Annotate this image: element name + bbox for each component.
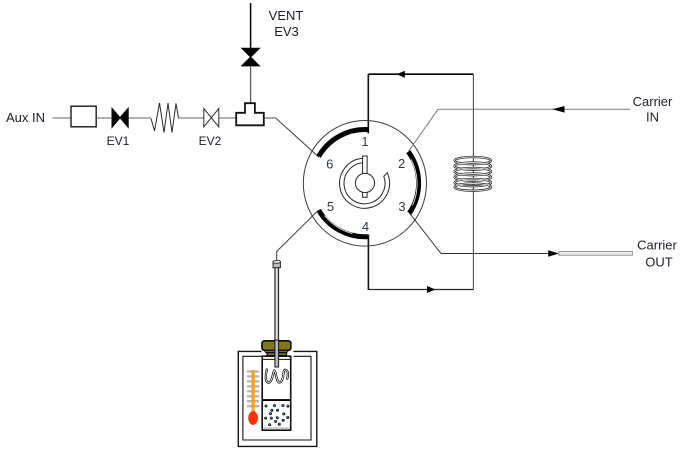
vial body	[262, 356, 291, 430]
valve EV1	[112, 108, 128, 127]
restrictor zigzag	[151, 103, 179, 133]
wire port 1	[367, 74, 369, 133]
wire restrictor to EV2	[179, 117, 204, 119]
svg-text:Aux IN: Aux IN	[6, 110, 45, 125]
wire tee to port 6	[264, 118, 319, 157]
vapor squiggle W	[266, 370, 288, 383]
thermometer bulb	[248, 411, 258, 425]
arrow right on Carrier OUT	[548, 250, 559, 256]
valve body circle	[303, 121, 426, 247]
wire EV2 to tee	[219, 117, 236, 119]
vial bottom shading	[263, 427, 290, 429]
thermometer tick marks	[247, 370, 259, 407]
sample loop rect bottom wire	[368, 289, 473, 291]
svg-text:Carrier: Carrier	[637, 238, 677, 253]
wire port 5 to needle	[277, 210, 319, 261]
sample loop rect right wire	[472, 74, 474, 289]
svg-text:5: 5	[327, 199, 334, 214]
tee fitting	[236, 103, 264, 125]
arrow right on bottom wire	[427, 286, 435, 293]
liquid separator line	[262, 399, 291, 401]
needle through cap	[275, 340, 279, 367]
wire vent line top	[250, 3, 252, 48]
oven box inner wall	[243, 356, 311, 440]
needle tube	[275, 268, 279, 367]
svg-text:IN: IN	[646, 110, 659, 125]
sample loop coil	[455, 157, 491, 191]
svg-text:EV3: EV3	[274, 24, 299, 39]
wire EV1 to restrictor	[129, 117, 151, 119]
rotor stem	[363, 156, 368, 197]
svg-text:Carrier: Carrier	[633, 94, 673, 109]
oven box outer wall	[238, 351, 316, 446]
sample loop rect top wire with arrow	[368, 73, 473, 75]
rotor channel arc ports 6-1	[319, 129, 369, 156]
arrow left on Carrier IN	[552, 106, 564, 113]
svg-text:EV2: EV2	[199, 134, 222, 148]
wire Aux IN to filter box	[53, 117, 72, 119]
svg-text:6: 6	[326, 157, 333, 172]
wire box to EV1	[96, 117, 111, 119]
rotor center circle	[355, 173, 374, 192]
svg-text:4: 4	[362, 219, 369, 234]
wire port 2 to Carrier IN	[408, 109, 630, 151]
wire port 3 to Carrier OUT	[409, 213, 549, 254]
liquid bubbles dots	[264, 404, 289, 426]
Carrier OUT tube	[559, 252, 633, 256]
svg-text:1: 1	[361, 134, 368, 149]
wire port 4	[367, 235, 369, 291]
wire EV3 to tee	[250, 66, 252, 103]
arrow left on top wire	[397, 71, 405, 78]
arc highlight streaks	[324, 134, 353, 163]
thermometer stem	[252, 370, 255, 414]
svg-text:EV1: EV1	[107, 134, 130, 148]
svg-text:3: 3	[398, 199, 405, 214]
svg-text:VENT: VENT	[269, 8, 304, 23]
rotor channel arc ports 4-5	[319, 210, 368, 237]
vial neck line	[262, 358, 291, 360]
rotor C ring	[340, 158, 390, 208]
valve EV2	[204, 109, 219, 127]
valve EV3	[242, 48, 260, 66]
svg-text:2: 2	[398, 156, 405, 171]
vial cap	[262, 341, 291, 351]
filter box	[71, 106, 96, 127]
svg-text:OUT: OUT	[645, 255, 673, 270]
rotor channel arc ports 2-3	[408, 152, 418, 214]
needle fitting	[273, 262, 280, 268]
